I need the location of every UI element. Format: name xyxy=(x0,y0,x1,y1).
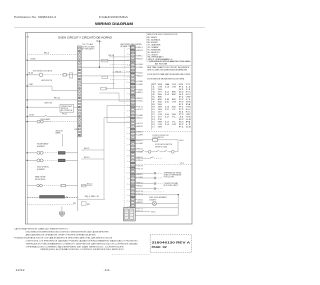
svg-text:YL: YL xyxy=(172,117,176,119)
svg-text:2: 2 xyxy=(152,89,155,91)
wire chart table xyxy=(150,83,152,130)
svg-text:12: 12 xyxy=(165,122,169,124)
svg-text:14: 14 xyxy=(165,124,169,126)
svg-text:WH-1: WH-1 xyxy=(137,56,142,58)
svg-text:3600 W BROIL: 3600 W BROIL xyxy=(37,167,49,169)
svg-text:BK-12: BK-12 xyxy=(87,184,93,186)
svg-text:VERIFIQUE EL FUNCIONAMIENTO CO: VERIFIQUE EL FUNCIONAMIENTO CORRECTO DES… xyxy=(26,242,139,245)
row 164 wire xyxy=(135,164,192,166)
motor door latch circuit xyxy=(27,74,28,75)
svg-text:7: 7 xyxy=(152,102,155,104)
svg-text:2-WH: 2-WH xyxy=(137,64,142,66)
svg-text:BU-3: BU-3 xyxy=(137,118,142,120)
svg-text:BK-2: BK-2 xyxy=(75,129,80,131)
svg-text:PK: PK xyxy=(87,204,90,206)
svg-text:2-WH: 2-WH xyxy=(137,135,142,137)
svg-text:K2: K2 xyxy=(179,92,184,94)
svg-text:F1: F1 xyxy=(179,87,184,89)
svg-text:WH-1: WH-1 xyxy=(137,92,142,94)
svg-text:S1: S1 xyxy=(179,94,184,96)
svg-text:14: 14 xyxy=(152,119,155,121)
svg-text:VT-9: VT-9 xyxy=(137,168,142,170)
door switch row xyxy=(135,157,150,159)
wire row 122.5 xyxy=(107,122,130,124)
svg-text:P1: P1 xyxy=(179,107,184,109)
svg-text:S1: S1 xyxy=(179,89,184,91)
dashed rule mid-right xyxy=(136,131,192,133)
svg-text:12: 12 xyxy=(165,92,169,94)
svg-text:F1: F1 xyxy=(179,104,184,106)
svg-text:F1: F1 xyxy=(179,97,184,99)
svg-text:OVEN CIRCUIT /\ CIRCUITO DE HO: OVEN CIRCUIT /\ CIRCUITO DE HORNO xyxy=(58,38,112,40)
svg-text:GY-2: GY-2 xyxy=(137,123,142,125)
svg-text:4: 4 xyxy=(152,94,155,96)
svg-text:K2: K2 xyxy=(179,122,184,124)
svg-text:Publication No: 09082434-3: Publication No: 09082434-3 xyxy=(14,15,57,19)
oven lamp symbol xyxy=(135,203,152,205)
dotted row 192 xyxy=(136,191,165,193)
svg-text:GRN YL USED ON SOME MODELS/VER: GRN YL USED ON SOME MODELS/VERSIONS xyxy=(147,70,188,72)
svg-text:F1: F1 xyxy=(179,127,184,129)
svg-text:BK-18: BK-18 xyxy=(109,55,115,57)
svg-text:WH-1: WH-1 xyxy=(137,132,142,134)
wire block to lamp loop xyxy=(135,214,178,216)
svg-text:3: 3 xyxy=(152,92,155,94)
component box K3 xyxy=(102,76,108,79)
svg-text:SWITCH: SWITCH xyxy=(61,108,68,110)
svg-text:L1: L1 xyxy=(186,124,191,126)
svg-text:6: 6 xyxy=(152,99,155,101)
svg-text:LOCK SWITCH: LOCK SWITCH xyxy=(153,137,165,139)
wire broil continuation xyxy=(81,158,104,160)
ground box GND xyxy=(59,212,64,215)
svg-text:WIRE COLOR CODE / CODIGO DE CO: WIRE COLOR CODE / CODIGO DE COLOR xyxy=(147,34,178,36)
svg-text:BK-4: BK-4 xyxy=(180,140,184,142)
svg-text:LMP: LMP xyxy=(186,114,191,116)
svg-text:17: 17 xyxy=(152,127,155,129)
svg-text:N(-) BK-8: N(-) BK-8 xyxy=(85,196,99,198)
wire 8 BK xyxy=(27,60,28,61)
connector EOC section divider xyxy=(130,167,135,169)
svg-text:VT: VT xyxy=(158,117,162,119)
connector block P2 bottom xyxy=(124,208,136,221)
svg-text:AT ROOM: AT ROOM xyxy=(155,62,168,65)
svg-text:BK-8: BK-8 xyxy=(137,126,142,128)
component box K2 xyxy=(101,87,107,90)
svg-text:DOOR LOCK MOTOR: DOOR LOCK MOTOR xyxy=(153,135,170,137)
dotted extension line xyxy=(112,253,150,255)
svg-text:12/12: 12/12 xyxy=(16,268,26,272)
meat probe circuit xyxy=(27,185,36,187)
svg-text:SHOWN LOCKED: SHOWN LOCKED xyxy=(155,146,168,148)
wire thermal dashed xyxy=(27,54,77,56)
svg-text:L1: L1 xyxy=(186,89,191,91)
svg-text:PONGA ETIQUETAS A TODOS LOS CA: PONGA ETIQUETAS A TODOS LOS CABLES ANTES… xyxy=(14,237,113,240)
switch box door latch xyxy=(69,73,72,78)
broil element circuit xyxy=(27,160,28,161)
svg-text:12: 12 xyxy=(165,109,169,111)
svg-text:BU-3: BU-3 xyxy=(137,185,142,187)
door latch switch circuit xyxy=(135,151,140,153)
svg-text:GY-1: GY-1 xyxy=(151,211,156,213)
svg-text:-14-: -14- xyxy=(104,268,111,272)
wire bake continuation xyxy=(81,149,104,151)
svg-text:BK-10: BK-10 xyxy=(54,98,60,100)
oven light switch box xyxy=(60,104,74,112)
svg-text:14: 14 xyxy=(165,94,169,96)
svg-text:VT-9: VT-9 xyxy=(137,106,142,108)
wire right of latch line xyxy=(78,198,105,200)
svg-text:15: 15 xyxy=(152,122,155,124)
svg-text:12: 12 xyxy=(152,114,155,116)
svg-text:OPERACION CORRECTA DESPUES DE: OPERACION CORRECTA DESPUES DE DAR SERVIC… xyxy=(26,245,125,248)
svg-text:VT: VT xyxy=(158,92,162,94)
svg-text:GY-2: GY-2 xyxy=(137,109,142,111)
svg-text:P2: P2 xyxy=(179,99,184,101)
svg-text:OR-6: OR-6 xyxy=(137,89,142,91)
svg-text:DISCONNECTION WHEN SERVICING C: DISCONNECTION WHEN SERVICING CONTROLS. W… xyxy=(26,231,110,234)
svg-text:2-WH: 2-WH xyxy=(137,67,142,69)
svg-text:VT-9: VT-9 xyxy=(137,166,142,168)
svg-text:AND DANGEROUS OPERATION. VERIF: AND DANGEROUS OPERATION. VERIFY PROPER O… xyxy=(26,234,97,237)
svg-text:BK-16: BK-16 xyxy=(116,72,122,74)
svg-text:BU-3: BU-3 xyxy=(137,58,142,60)
svg-text:WH-1: WH-1 xyxy=(137,47,142,49)
svg-text:16: 16 xyxy=(165,114,169,116)
svg-text:2 BK: 2 BK xyxy=(29,84,34,86)
connector EOC P1/P2 column xyxy=(130,46,135,216)
wire vertical interconnect 4 xyxy=(106,106,108,123)
svg-text:13: 13 xyxy=(152,117,155,119)
svg-text:14: 14 xyxy=(165,87,169,89)
svg-text:22 BK: 22 BK xyxy=(29,114,34,116)
svg-text:YL: YL xyxy=(172,109,176,111)
svg-text:BK-13: BK-13 xyxy=(84,157,90,159)
svg-text:1: 1 xyxy=(152,87,155,89)
svg-text:VT-2: VT-2 xyxy=(180,163,184,165)
node stub above EOC xyxy=(99,41,101,44)
oven light circuit top xyxy=(135,194,178,196)
svg-text:10: 10 xyxy=(152,109,155,111)
svg-text:9: 9 xyxy=(152,107,155,109)
svg-text:LOCK MOTOR CAM SWITCH SHOWN UN: LOCK MOTOR CAM SWITCH SHOWN UNLOCKED xyxy=(147,73,191,76)
svg-text:FOR 100 OHM: FOR 100 OHM xyxy=(164,177,175,179)
svg-text:BU-3: BU-3 xyxy=(137,75,142,77)
ground strap xyxy=(61,207,63,213)
wire door switch row xyxy=(27,116,28,117)
svg-text:16: 16 xyxy=(152,124,155,126)
svg-text:CAUTION/ATTENTION: LABEL ALL W: CAUTION/ATTENTION: LABEL ALL WIRES PRIOR… xyxy=(14,228,69,231)
svg-text:BK-6: BK-6 xyxy=(44,52,49,54)
svg-text:VERIFIQUE LA OPERACION DEL CON: VERIFIQUE LA OPERACION DEL CONTROL DESPU… xyxy=(40,248,125,251)
connector EOC left pin stubs xyxy=(129,48,131,50)
svg-text:RD-4: RD-4 xyxy=(137,149,142,151)
svg-text:318046130 REV A: 318046130 REV A xyxy=(152,240,192,244)
svg-text:BU-3: BU-3 xyxy=(137,98,142,100)
svg-text:2-WH: 2-WH xyxy=(137,81,142,83)
svg-text:BK-8: BK-8 xyxy=(137,202,142,204)
svg-text:DOOR SWITCH SHOWN WITH DOOR OP: DOOR SWITCH SHOWN WITH DOOR OPEN xyxy=(147,78,185,80)
svg-text:BU-3: BU-3 xyxy=(137,140,142,142)
svg-text:P: P xyxy=(152,84,156,86)
door lock motor circuit xyxy=(135,139,152,141)
svg-text:14: 14 xyxy=(165,107,169,109)
wire lower top-left jog xyxy=(27,85,28,86)
wire horiz mid EOC pins xyxy=(105,88,130,90)
svg-text:3000 W: 3000 W xyxy=(56,130,64,132)
svg-text:8: 8 xyxy=(152,104,155,106)
svg-text:OVEN LIGHT: OVEN LIGHT xyxy=(61,106,72,108)
svg-text:18: 18 xyxy=(165,99,169,101)
svg-text:K2: K2 xyxy=(179,119,184,121)
svg-text:LMP: LMP xyxy=(186,97,191,99)
header rule xyxy=(14,27,205,29)
svg-text:LIGHT SW: LIGHT SW xyxy=(44,103,53,105)
oven light circuit bottom xyxy=(135,207,178,209)
svg-text:YL-5: YL-5 xyxy=(137,211,142,213)
svg-text:ELEMENT: ELEMENT xyxy=(37,146,45,148)
svg-text:5: 5 xyxy=(152,97,155,99)
diagram frame border xyxy=(26,33,193,225)
bake element circuit xyxy=(27,152,28,153)
svg-text:P2: P2 xyxy=(179,102,184,104)
svg-text:L1: L1 xyxy=(186,99,191,101)
svg-text:BU-3: BU-3 xyxy=(137,174,142,176)
svg-text:J1: J1 xyxy=(179,117,184,119)
svg-text:RD-4: RD-4 xyxy=(137,160,142,162)
part number box xyxy=(150,235,191,253)
wire vertical interconnect 1 xyxy=(99,44,101,67)
wire lamp row xyxy=(27,121,28,122)
svg-text:K2: K2 xyxy=(179,124,184,126)
svg-text:BU-3: BU-3 xyxy=(137,50,142,52)
svg-text:WIRING DIAGRAM: WIRING DIAGRAM xyxy=(95,22,133,26)
svg-text:OR-6: OR-6 xyxy=(137,199,142,201)
bottom right stub row xyxy=(135,210,150,212)
svg-text:S1: S1 xyxy=(179,112,184,114)
svg-text:DLB: DLB xyxy=(186,119,191,121)
svg-text:11: 11 xyxy=(152,112,155,114)
svg-text:VT-9: VT-9 xyxy=(137,208,142,210)
dashed console/oven boundary xyxy=(123,46,125,216)
svg-text:OR-6: OR-6 xyxy=(137,101,142,103)
svg-text:P2: P2 xyxy=(179,114,184,116)
svg-text:OR-6: OR-6 xyxy=(137,72,142,74)
svg-text:DLB: DLB xyxy=(186,127,191,129)
svg-text:P2: P2 xyxy=(179,109,184,111)
wire junction row xyxy=(81,66,99,68)
svg-text:FGEF3030NFA: FGEF3030NFA xyxy=(99,15,128,19)
svg-text:YL: YL xyxy=(172,122,176,124)
legend wire color code box xyxy=(146,33,192,62)
wire to oven light switch xyxy=(27,106,60,108)
svg-text:BK-11: BK-11 xyxy=(84,148,90,150)
wire horiz top EOC pins xyxy=(109,56,130,58)
svg-text:L1: L1 xyxy=(186,87,191,89)
temperature probe contacts xyxy=(135,172,153,174)
wire vertical interconnect 3 xyxy=(103,118,105,200)
wire neutral dashed xyxy=(27,196,39,198)
wire pk dashed xyxy=(27,204,74,206)
svg-text:FROM: FROM xyxy=(179,84,184,86)
svg-text:PK-55: PK-55 xyxy=(62,114,67,116)
wire vertical interconnect 2 xyxy=(118,93,120,101)
connector door-latch column xyxy=(78,46,82,137)
wire BK-10 run xyxy=(27,99,28,100)
svg-text:16: 16 xyxy=(165,102,169,104)
svg-text:ELEMENT: ELEMENT xyxy=(37,169,45,171)
wire L1 bus (left vertical) xyxy=(26,33,28,225)
svg-text:12: 12 xyxy=(165,117,169,119)
wire vertical interconnect 5 xyxy=(112,55,114,89)
label neutral bar xyxy=(40,195,65,198)
svg-text:PAGE: 1/2: PAGE: 1/2 xyxy=(152,245,168,249)
component pk box xyxy=(81,202,86,205)
svg-text:CONTROLES. LOS ERRORES DE CABL: CONTROLES. LOS ERRORES DE CABLEADO PUEDE… xyxy=(26,240,139,243)
connector EOC pin labels xyxy=(135,46,137,48)
